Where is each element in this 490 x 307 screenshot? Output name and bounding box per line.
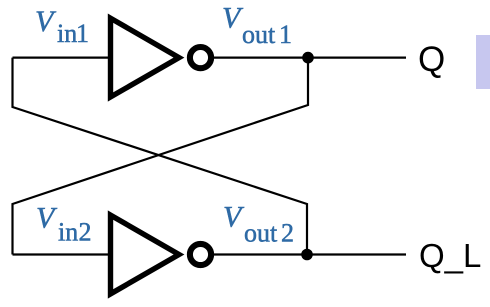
svg-text:2: 2 (281, 219, 294, 248)
svg-text:V: V (35, 5, 57, 38)
svg-text:1: 1 (279, 20, 292, 49)
svg-text:V: V (36, 202, 58, 235)
svg-text:out: out (244, 219, 278, 248)
svg-text:1: 1 (76, 19, 89, 48)
svg-text:V: V (222, 2, 244, 35)
svg-text:in: in (58, 218, 78, 247)
svg-text:2: 2 (79, 218, 92, 247)
svg-text:in: in (57, 19, 77, 48)
svg-text:out: out (242, 20, 276, 49)
svg-text:Q_L: Q_L (419, 237, 481, 274)
svg-text:Q: Q (418, 40, 445, 79)
svg-text:V: V (223, 201, 245, 234)
